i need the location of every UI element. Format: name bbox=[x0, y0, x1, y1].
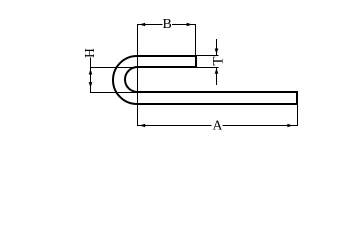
extension line right of B bbox=[195, 24, 197, 68]
arrowhead H down bbox=[89, 82, 93, 88]
arrowhead T down bbox=[215, 49, 219, 55]
svg-text:A: A bbox=[213, 117, 223, 132]
svg-text:T: T bbox=[210, 56, 226, 65]
dimension A line left segment bbox=[137, 125, 212, 127]
top leg bottom edge bbox=[137, 66, 197, 68]
arrowhead A right bbox=[287, 124, 293, 127]
arrowhead T up bbox=[215, 68, 219, 74]
dimension B line right segment bbox=[172, 24, 196, 26]
svg-text:B: B bbox=[163, 17, 172, 32]
T lower extension line bbox=[197, 67, 219, 69]
arrowhead B left bbox=[139, 23, 145, 26]
dimension A line right segment bbox=[223, 125, 299, 127]
T upper extension line bbox=[197, 55, 219, 57]
svg-text:H: H bbox=[82, 48, 97, 58]
dimension H vertical line bbox=[90, 58, 92, 94]
H upper extension line bbox=[90, 67, 137, 69]
top leg end cap bbox=[195, 55, 197, 68]
arrowhead H up bbox=[89, 69, 93, 75]
extension line left (B/A) bbox=[137, 24, 139, 126]
T upper leader line bbox=[216, 39, 218, 55]
H lower extension line bbox=[90, 92, 137, 94]
bottom leg end cap bbox=[296, 91, 298, 105]
T lower leader line bbox=[216, 68, 218, 85]
dimension B line left segment bbox=[137, 24, 163, 26]
hook outer arc bbox=[113, 56, 137, 104]
arrowhead A left bbox=[139, 124, 145, 127]
bottom leg bottom edge bbox=[137, 103, 298, 105]
bottom leg top edge bbox=[137, 91, 298, 93]
hook inner arc bbox=[125, 67, 138, 92]
extension line right of A bbox=[297, 105, 299, 126]
arrowhead B right bbox=[187, 23, 193, 26]
top leg top edge bbox=[137, 55, 197, 57]
